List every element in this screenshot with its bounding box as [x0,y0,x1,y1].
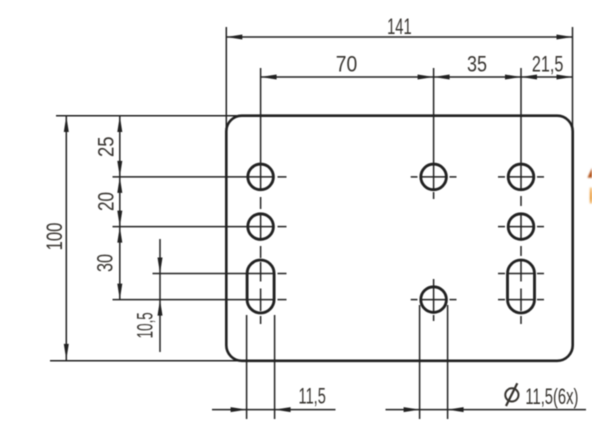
svg-text:21,5: 21,5 [532,52,564,77]
svg-text:11,5: 11,5 [299,383,326,408]
svg-text:70: 70 [336,52,358,77]
svg-text:11,5(6x): 11,5(6x) [525,384,578,409]
svg-text:100: 100 [42,223,67,251]
svg-text:30: 30 [93,254,118,272]
svg-text:141: 141 [387,14,412,39]
svg-text:35: 35 [467,52,487,77]
svg-text:20: 20 [93,192,118,211]
svg-text:10,5: 10,5 [132,312,157,338]
svg-text:25: 25 [93,137,118,158]
